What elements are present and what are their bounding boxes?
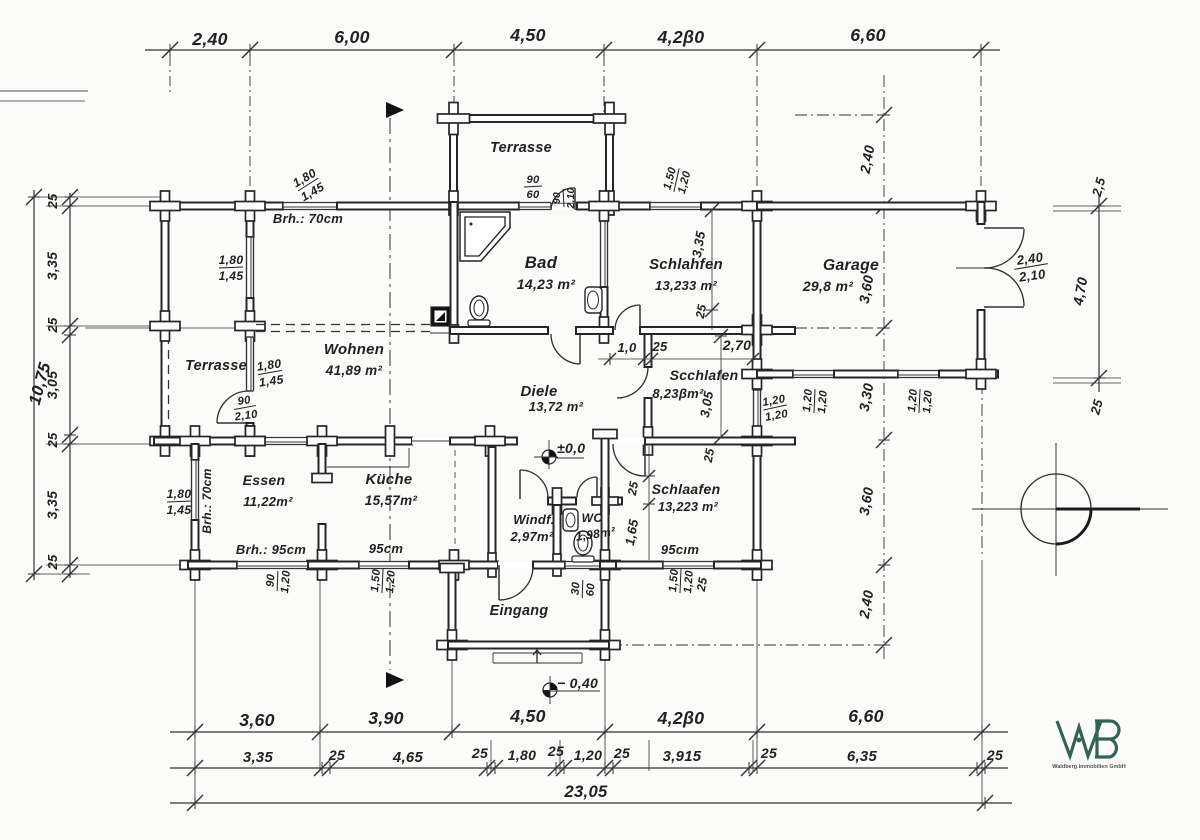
svg-text:6,35: 6,35 <box>847 749 878 765</box>
door windf arc <box>520 470 548 498</box>
dim label 1,65 <box>622 517 641 546</box>
wall south kueche e <box>409 562 498 569</box>
extension x=649 bottom short <box>648 740 650 771</box>
svg-text:60: 60 <box>526 189 540 201</box>
wall x557 <box>554 505 561 565</box>
label brh95 essen <box>236 542 306 557</box>
door terrace top arc <box>551 188 575 210</box>
svg-text:Brh.: 95cm: Brh.: 95cm <box>236 542 306 557</box>
dim label 3,60 right b <box>856 486 877 517</box>
log crossing garage ne <box>966 191 996 221</box>
svg-text:Terrasse: Terrasse <box>490 140 552 156</box>
dim label 2,70 <box>722 337 751 353</box>
extension x=605 bottom <box>604 652 606 771</box>
svg-text:4,50: 4,50 <box>509 25 546 45</box>
svg-text:1,80: 1,80 <box>167 487 192 501</box>
dim label 25 bottom f <box>986 747 1003 763</box>
svg-text:Küche: Küche <box>365 472 412 488</box>
svg-text:14,23 m²: 14,23 m² <box>517 276 575 292</box>
dimension line bottom 3 <box>170 795 1012 811</box>
extension line x=454 <box>453 56 455 112</box>
terrace north wall <box>444 115 620 122</box>
svg-text:1,20: 1,20 <box>384 569 398 593</box>
extension line x=981 <box>980 56 982 196</box>
level line 0,0 <box>556 457 584 459</box>
garage window south 2 <box>898 371 939 378</box>
dim label 6,35 bottom <box>847 749 878 765</box>
log crossing terrace nw <box>438 103 470 135</box>
wall east x757 upper <box>754 202 761 390</box>
extension x=487 bottom short <box>490 740 492 771</box>
svg-text:3,90: 3,90 <box>368 708 404 728</box>
shower bad <box>460 212 510 261</box>
svg-text:25: 25 <box>45 554 60 571</box>
window y441 a <box>263 438 308 445</box>
dim label 4,65 bottom <box>392 750 424 766</box>
garage window south 1 <box>793 371 834 378</box>
log crossing x195 y565 <box>180 550 210 580</box>
svg-text:4,2β0: 4,2β0 <box>657 708 705 728</box>
garage south wall a <box>757 371 793 378</box>
dim label 25 left b <box>45 317 60 334</box>
dim label 25 bottom b <box>471 745 488 761</box>
label 1,80/1,45 top <box>290 166 326 204</box>
site symbol bold line <box>1056 508 1140 511</box>
door wc leaf <box>596 477 598 497</box>
dim label 4,260 top <box>657 27 705 47</box>
door scchlafen arc <box>617 367 648 398</box>
extension x=982 bottom <box>981 560 983 806</box>
log end bad west <box>450 325 459 343</box>
porch south wall <box>448 642 609 649</box>
door terrace west arc <box>217 391 249 423</box>
svg-text:25: 25 <box>651 339 668 354</box>
extension y=206 left <box>46 205 160 207</box>
label 2,40/2,10 garage door <box>1012 249 1050 285</box>
svg-text:25: 25 <box>625 480 641 497</box>
svg-text:1,20: 1,20 <box>906 388 920 412</box>
garage east wall lower <box>978 310 985 378</box>
log crossing x757 y565 <box>742 550 772 580</box>
dim label 3,35 schlafen1 <box>689 229 708 258</box>
door bad arc <box>551 334 580 364</box>
extension y=115 right <box>795 114 884 116</box>
room label garage <box>823 257 879 274</box>
svg-text:29,8 m²: 29,8 m² <box>802 278 853 294</box>
svg-text:1,80: 1,80 <box>508 747 536 763</box>
dim label 3,60 right a <box>856 274 877 305</box>
dim label 25 left e <box>45 554 60 571</box>
wall y441 west <box>154 438 263 445</box>
site symbol bold arc <box>1056 509 1091 544</box>
door schlafen1 leaf <box>639 305 641 330</box>
svg-text:Terrasse: Terrasse <box>185 358 247 374</box>
log end x605 top <box>593 430 617 439</box>
level marker -0,40 <box>543 676 557 704</box>
svg-text:4,50: 4,50 <box>509 706 546 726</box>
room area schlafen1 <box>655 278 717 293</box>
svg-text:Scchlafen: Scchlafen <box>670 367 739 383</box>
log crossing porch sw <box>437 630 467 660</box>
svg-text:13,233 m²: 13,233 m² <box>655 278 717 293</box>
svg-text:2,97m²: 2,97m² <box>510 529 554 544</box>
log crossing garage se <box>966 359 996 389</box>
wall stub x648 lower <box>645 398 652 438</box>
dim label 3,60 bottom <box>239 710 275 730</box>
svg-text:25: 25 <box>613 745 630 761</box>
extension line x=250 <box>249 56 251 188</box>
wall y441 schlaafen <box>645 438 795 445</box>
level label -0,40 <box>557 675 598 691</box>
window 1,80 top wohnen <box>283 203 337 210</box>
svg-text:90: 90 <box>552 192 563 204</box>
wall top main west <box>161 203 283 210</box>
label 1,20/1,20 garage a <box>801 388 830 414</box>
dim scchlafen interior <box>714 329 728 444</box>
svg-text:25: 25 <box>45 432 60 449</box>
svg-text:Brh.: 70cm: Brh.: 70cm <box>273 211 343 226</box>
dim label 4,50 top <box>509 25 546 45</box>
svg-text:1,20: 1,20 <box>279 569 293 593</box>
svg-text:1,20: 1,20 <box>801 388 815 412</box>
label 95cm schlaafen <box>661 542 700 557</box>
dim label 1,80 bottom <box>508 747 536 763</box>
svg-text:90: 90 <box>237 394 252 408</box>
log crossing x757 y330 <box>742 315 772 345</box>
label brh70 top <box>273 211 343 226</box>
sink bad <box>585 287 602 313</box>
dim line 1,0/25/2,70 <box>598 353 759 365</box>
window 1,20 x757 <box>754 390 761 431</box>
terrace sill line <box>470 121 590 123</box>
terrace east wall <box>606 115 613 202</box>
dim label 3,915 bottom <box>663 749 702 765</box>
room area scchlafen <box>652 386 704 401</box>
dim label 2,40 right bot <box>856 589 877 621</box>
svg-text:41,89 m²: 41,89 m² <box>325 363 383 378</box>
wall top east <box>701 203 985 210</box>
wall south essen w <box>188 562 237 569</box>
wall south schlaafen e <box>714 562 761 569</box>
room area windf <box>510 529 554 544</box>
room label schlaafen2 <box>652 481 721 497</box>
kitchen counter <box>327 448 409 467</box>
dim label 3,30 right <box>856 382 877 413</box>
garage door arc bottom <box>984 268 1024 306</box>
wall y441 kitchen <box>450 438 517 445</box>
log crossing x488 y565 <box>488 553 496 577</box>
svg-text:4,2β0: 4,2β0 <box>657 27 705 47</box>
wall top wohnen east <box>337 203 519 210</box>
door windf leaf <box>519 470 521 499</box>
site symbol hline <box>972 508 1168 510</box>
svg-text:Windf.: Windf. <box>513 512 554 527</box>
dim label 4,220 bottom <box>657 708 705 728</box>
label 1,50/1,20 kueche <box>369 568 398 594</box>
wall west dashed inner <box>167 335 169 438</box>
svg-text:Schlaafen: Schlaafen <box>652 481 721 497</box>
dim label 2,40 right top <box>857 144 878 176</box>
terrace west wall <box>450 115 457 202</box>
svg-text:Waldberg Immobilien GmbH: Waldberg Immobilien GmbH <box>1052 764 1125 770</box>
log crossing x648 y441 <box>644 427 653 455</box>
extension x=452 bottom <box>451 652 453 736</box>
label 95cm kueche <box>369 541 404 556</box>
log crossing y441 x488 <box>475 426 505 456</box>
extension y=444 left <box>46 443 186 445</box>
log crossing x322 y565 <box>307 550 337 580</box>
wall x492 <box>489 447 496 565</box>
wall y501 wc <box>597 498 622 505</box>
dim label 6,60 bottom <box>848 706 884 726</box>
dim label 25 scchlafen <box>701 447 717 464</box>
extension y=328 garage <box>795 327 878 329</box>
dimension line bottom 2 <box>170 760 1008 776</box>
door schlaafen2 leaf <box>644 444 646 476</box>
dim label 3,05 left <box>44 371 60 399</box>
door terrace top leaf <box>574 188 576 210</box>
svg-text:Diele: Diele <box>520 384 557 400</box>
window schlaafen south <box>663 562 714 569</box>
svg-text:3,60: 3,60 <box>239 710 275 730</box>
wall stub x648 upper <box>645 334 652 367</box>
wall east x757 lower <box>754 431 761 565</box>
svg-text:2,70: 2,70 <box>722 337 751 353</box>
room area garage <box>802 278 853 294</box>
extension x=757 bottom <box>756 572 758 771</box>
wall x605 <box>602 432 609 648</box>
wall x250 lower <box>247 423 254 444</box>
window 1,80 x250 b <box>247 337 254 391</box>
log crossing x757 y441 <box>742 426 772 456</box>
svg-text:90: 90 <box>526 174 540 186</box>
level marker 0,0 <box>534 440 558 469</box>
bad south thin ext <box>430 332 450 334</box>
svg-text:25: 25 <box>694 576 710 593</box>
wall south windf e <box>533 562 565 569</box>
svg-text:− 0,40: − 0,40 <box>557 675 598 691</box>
log crossing x605 y501 <box>592 488 618 514</box>
wall bad south east piece <box>576 327 613 334</box>
log crossing x605 y645 <box>590 630 620 660</box>
wall x322 lower <box>319 524 326 565</box>
level label 0,0 <box>557 440 585 456</box>
dim label 23,05 <box>563 782 608 801</box>
door eingang leaf <box>498 565 500 600</box>
site symbol circle <box>1021 474 1091 544</box>
extension line x=757 <box>756 56 758 196</box>
label 1,20/1,20 scchlafen east <box>761 393 789 424</box>
dim label 2,40 top <box>191 29 228 49</box>
svg-text:Wohnen: Wohnen <box>324 342 384 358</box>
log crossing x250 top <box>235 191 265 221</box>
wall schlafen1 south <box>640 327 795 334</box>
garage door mid line <box>956 267 984 269</box>
wall bad/schlafen x604 up <box>601 202 608 215</box>
svg-text:30: 30 <box>569 581 582 596</box>
svg-text:25: 25 <box>471 745 488 761</box>
log end terrace w <box>449 191 458 215</box>
garage south wall c <box>939 371 998 378</box>
dimension line top <box>145 42 1000 58</box>
window essen south <box>237 562 308 569</box>
extension x=982 dashdot <box>981 382 983 556</box>
scan artifact line a <box>0 90 88 92</box>
porch step arrow <box>533 650 541 663</box>
dimension line right outer <box>1053 195 1121 392</box>
extension y=197 left <box>28 196 160 198</box>
window 1,50 schlafen top <box>650 203 701 210</box>
dim label 6,00 top <box>334 27 370 47</box>
opening y441 thin <box>412 438 450 445</box>
log crossing x250 mid <box>235 311 265 341</box>
door wc arc <box>577 477 597 497</box>
door schlaafen2 arc <box>613 444 645 476</box>
garage door jamb top <box>984 227 1024 229</box>
log crossing y441 x195 <box>180 426 210 456</box>
room area wc <box>575 524 617 544</box>
extension y=574 left <box>28 573 90 575</box>
svg-text:WC: WC <box>582 511 603 525</box>
dim label 25 bottom a <box>328 747 345 763</box>
extension y=326 left <box>46 325 160 327</box>
dim label 25 left a <box>45 193 60 210</box>
room area diele <box>529 399 584 414</box>
room label wc <box>582 511 603 525</box>
room label diele <box>520 384 557 400</box>
dim label 25 bottom e <box>760 745 777 761</box>
log crossing x250 bottom <box>235 426 265 456</box>
dim label 4,50 bottom <box>509 706 546 726</box>
svg-text:11,22m²: 11,22m² <box>243 494 293 509</box>
section line A-A <box>389 118 391 670</box>
door terrace west leaf <box>217 422 249 424</box>
room area kueche <box>365 493 418 508</box>
dim label 1,0 <box>618 340 637 355</box>
dim schlafen1 interior <box>705 203 719 330</box>
extension x=195 bottom <box>194 572 196 806</box>
label 1,50/1,20 schlaafen <box>667 568 696 594</box>
svg-text:1,50: 1,50 <box>369 568 383 592</box>
extension x=560 bottom short <box>559 740 561 771</box>
svg-text:25: 25 <box>986 747 1003 763</box>
log crossing x605 y565 <box>590 550 620 580</box>
log crossing x604 top <box>589 191 619 221</box>
svg-text:±0,0: ±0,0 <box>557 440 585 456</box>
garage door arc top <box>984 229 1024 268</box>
garage east wall upper <box>978 202 985 224</box>
svg-text:Garage: Garage <box>823 257 879 274</box>
window 1,80 x250 a <box>247 237 254 298</box>
label 1,20/1,20 garage b <box>906 388 935 414</box>
extension line x=170 <box>169 56 171 95</box>
svg-text:3,915: 3,915 <box>663 749 702 765</box>
svg-text:1,20: 1,20 <box>816 389 830 413</box>
room label kueche <box>365 472 412 488</box>
svg-text:13,72 m²: 13,72 m² <box>529 399 584 414</box>
svg-text:6,00: 6,00 <box>334 27 370 47</box>
svg-text:60: 60 <box>584 582 597 597</box>
label 90/1,20 <box>264 568 293 594</box>
scan artifact line b <box>0 100 85 102</box>
svg-text:13,223 m²: 13,223 m² <box>658 500 719 514</box>
wall essen west lower <box>192 520 199 565</box>
log crossing y565 x454 <box>439 550 469 580</box>
dimension line right x884 <box>876 75 892 660</box>
wall essen west upper <box>192 444 199 460</box>
dim label 25 bottom d <box>613 745 630 761</box>
toilet bad <box>468 296 490 326</box>
dim label 1,20 bottom <box>574 747 602 763</box>
wall south wc e <box>600 562 616 569</box>
garage door jamb bottom <box>984 306 1024 308</box>
log end porch w top <box>440 564 464 573</box>
stove kamin <box>431 307 450 326</box>
extension x=753 bottom short <box>752 740 754 771</box>
dim label 3,35 left <box>44 252 60 280</box>
wall south essen e <box>308 562 359 569</box>
room label terrasse west <box>185 358 247 374</box>
door eingang opening <box>498 562 533 569</box>
svg-text:25: 25 <box>701 447 717 464</box>
svg-text:95cm: 95cm <box>369 541 404 556</box>
svg-text:25: 25 <box>328 747 345 763</box>
log crossing terrace ne <box>594 103 626 135</box>
log crossing west mid <box>150 311 180 341</box>
svg-text:25: 25 <box>45 193 60 210</box>
label 1,80/1,45 x250 a <box>219 253 244 283</box>
log crossing west low <box>150 426 180 456</box>
log crossing x604 bottom <box>600 317 609 343</box>
wall bad/schlafen x604 low <box>601 287 608 331</box>
window essen west <box>192 460 199 520</box>
sink wc <box>563 509 578 531</box>
wall west main <box>162 202 169 444</box>
label 90/2,10 terrace top <box>552 187 577 209</box>
section arrow bottom <box>386 672 404 688</box>
svg-text:25: 25 <box>693 303 709 320</box>
room label eingang <box>490 603 549 619</box>
dim label 25 schlaafen <box>625 480 641 497</box>
label 30/60 wc <box>569 579 597 599</box>
room label windf <box>513 512 554 527</box>
svg-text:25: 25 <box>45 317 60 334</box>
door bad leaf <box>579 334 581 364</box>
room label wohnen <box>324 342 384 358</box>
svg-text:1,50: 1,50 <box>667 568 681 592</box>
svg-text:4,65: 4,65 <box>392 750 424 766</box>
wall x322 upper <box>319 444 326 478</box>
wall y501 windf <box>548 498 576 505</box>
room label scchlafen <box>670 367 739 383</box>
dim label 25 left c <box>45 432 60 449</box>
beam dashed wohnen <box>256 325 434 332</box>
dimension line left inner <box>62 189 78 582</box>
section arrow top <box>386 102 404 118</box>
room label bad <box>525 253 558 272</box>
door schlaafen2 opening <box>609 438 645 445</box>
svg-text:8,23βm²: 8,23βm² <box>652 386 704 401</box>
svg-text:25: 25 <box>760 745 777 761</box>
svg-text:90: 90 <box>264 573 277 588</box>
dim label 3,35 left d <box>44 491 60 519</box>
log crossing x557 y501 <box>553 488 562 514</box>
window 90/60 top <box>519 203 551 210</box>
wall x250 mid <box>247 298 254 337</box>
porch west wall <box>449 565 456 648</box>
svg-text:95cım: 95cım <box>661 542 700 557</box>
axis line y=328 terrace <box>85 327 253 329</box>
